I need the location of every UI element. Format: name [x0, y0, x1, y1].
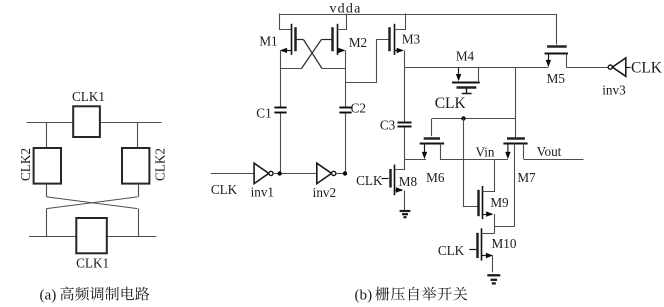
wire node B bottom right [322, 68, 345, 70]
wire M7 body to node [495, 226, 515, 228]
wire junction to M6 (node C) [405, 159, 426, 161]
caption a text 高频调制电路 [60, 287, 149, 301]
wire cross diagonal 2 [47, 197, 138, 209]
wire node B to M3 gate [346, 40, 391, 83]
transistor M2 [333, 24, 346, 55]
capacitor C2 [339, 108, 351, 113]
wire M8 drain up [395, 160, 405, 170]
wire M5 gate stub to rail [556, 14, 558, 45]
svg-text:CLK: CLK [356, 173, 383, 188]
svg-text:M3: M3 [402, 31, 421, 46]
svg-text:Vout: Vout [537, 144, 562, 159]
wire Vin segment [440, 159, 508, 161]
svg-text:(b): (b) [355, 287, 373, 304]
wire right vertical [138, 184, 140, 237]
wire M1 gate lead [296, 39, 304, 41]
svg-text:CLK: CLK [211, 182, 238, 197]
wire M9 source to M10 drain [494, 214, 496, 233]
svg-text:vdda: vdda [329, 1, 361, 16]
svg-text:inv3: inv3 [602, 83, 626, 98]
wire bottom horizontal [29, 236, 156, 238]
svg-text:M4: M4 [456, 48, 475, 63]
node junction dot C2 [343, 171, 347, 175]
wire CLK input [211, 173, 254, 175]
svg-text:M5: M5 [547, 71, 566, 86]
wire Vout segment [524, 159, 584, 161]
svg-text:CLK2: CLK2 [18, 148, 33, 181]
wire M2 drain to rail [337, 14, 347, 30]
wire M3 drain to rail [394, 14, 406, 30]
power rail vdda [279, 14, 556, 16]
wire left drop [46, 123, 48, 149]
svg-text:CLK1: CLK1 [72, 89, 105, 104]
transistor M1 [280, 24, 296, 55]
wire M1 source down [280, 50, 282, 68]
svg-text:M1: M1 [259, 33, 277, 48]
wire M7 gate vertical [515, 67, 517, 138]
wire M8 source down [404, 191, 406, 211]
svg-text:CLK: CLK [435, 95, 467, 112]
wire M5 to inv3 [566, 67, 608, 69]
svg-text:M2: M2 [349, 35, 367, 50]
transistor M9 [479, 186, 494, 219]
svg-text:M7: M7 [517, 170, 536, 185]
svg-text:CLK: CLK [631, 59, 663, 76]
wire left vertical [46, 184, 48, 237]
wire inv1 out to inv2 [273, 173, 317, 175]
capacitor C3 [398, 123, 412, 127]
block CLK2 left [34, 148, 61, 184]
wire top horizontal [27, 122, 162, 124]
wire M10 source down [492, 255, 494, 272]
wire M10 drain stub [482, 233, 495, 235]
wire M3 source / C3 vertical [404, 50, 406, 159]
transistor M7 [503, 139, 527, 160]
svg-text:inv1: inv1 [251, 185, 274, 200]
svg-text:M9: M9 [490, 195, 509, 210]
wire node A bottom left [280, 68, 302, 70]
wire M1 drain from rail [280, 14, 292, 30]
svg-text:C2: C2 [351, 101, 366, 116]
wire M7 body down [514, 144, 516, 227]
svg-text:M8: M8 [399, 174, 418, 189]
wire cross diagonal 1 [47, 197, 138, 209]
ground M8 [400, 211, 411, 217]
svg-text:Vin: Vin [476, 144, 495, 159]
node junction dot gate bus [461, 116, 465, 120]
svg-text:CLK1: CLK1 [76, 256, 109, 271]
transistor M5 [545, 47, 569, 68]
svg-text:C3: C3 [380, 117, 396, 132]
svg-text:M6: M6 [426, 170, 445, 185]
capacitor C1 [274, 108, 286, 113]
transistor M4 [452, 67, 480, 87]
transistor M8 [382, 165, 404, 196]
svg-text:(a): (a) [40, 287, 57, 304]
wire cross-couple diagonal M1gate-M2drain [303, 40, 322, 69]
inverter inv1 [254, 163, 273, 183]
wire right drop [137, 123, 139, 149]
svg-text:CLK: CLK [438, 243, 465, 258]
svg-text:M10: M10 [492, 236, 517, 251]
wire M2 source down [345, 50, 347, 68]
svg-text:inv2: inv2 [313, 185, 336, 200]
clock terminal M4 gate [462, 88, 472, 94]
block CLK2 right [122, 148, 149, 184]
node junction dot C1 [278, 171, 282, 175]
transistor M10 [469, 228, 493, 260]
wire C1 vertical [280, 69, 282, 174]
block CLK1 top [73, 106, 100, 137]
wire M9 drain up to Vin [483, 160, 495, 192]
block CLK1 bottom [76, 218, 107, 253]
svg-text:C1: C1 [256, 106, 271, 121]
wire gate bus M6-M7 [432, 118, 516, 120]
ground M10 [487, 275, 500, 283]
wire boost line [405, 67, 549, 69]
wire M2 gate lead [321, 39, 332, 41]
caption b text 栅压自举开关 [375, 287, 467, 301]
wire cross-couple diagonal M2gate-M1drain [302, 40, 322, 69]
inverter inv3 [608, 58, 630, 76]
transistor M3 [390, 24, 404, 55]
inverter inv2 [317, 163, 336, 183]
transistor M6 [420, 119, 444, 160]
wire M9 gate vertical [464, 119, 479, 207]
wire C2 vertical [345, 69, 347, 174]
svg-text:CLK2: CLK2 [152, 148, 167, 181]
wire inv2 out [336, 173, 345, 175]
